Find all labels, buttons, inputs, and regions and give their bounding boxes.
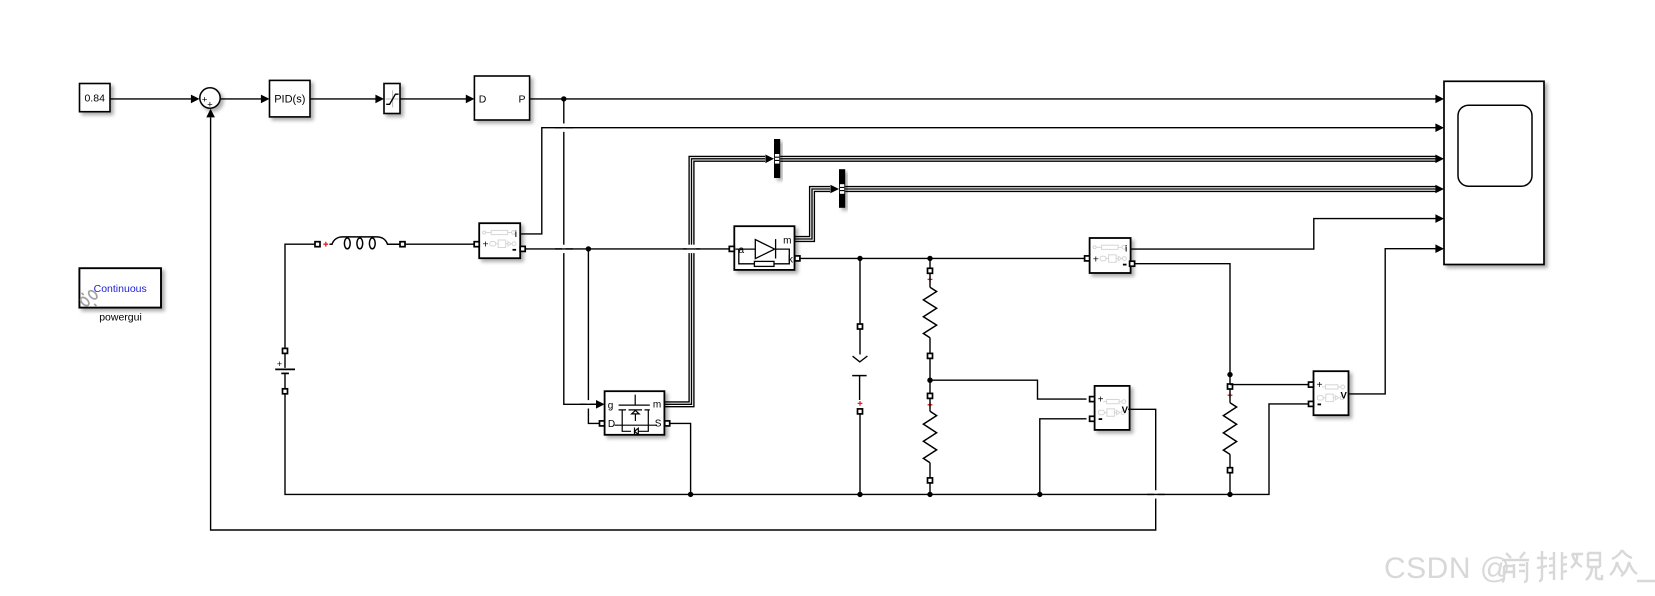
junction on P wire bbox=[561, 96, 566, 101]
bus diode m to demux 2 bbox=[795, 185, 840, 242]
svg-text:0.84: 0.84 bbox=[84, 93, 105, 105]
svg-text:P: P bbox=[518, 93, 525, 105]
wire V2 output to scope input 6 bbox=[1349, 244, 1445, 394]
scope block bbox=[1444, 81, 1544, 264]
svg-text:D: D bbox=[479, 94, 487, 106]
constant block 0.84 bbox=[80, 84, 111, 112]
wire feedback V1 to summing junction bbox=[206, 109, 1155, 530]
svg-text:V: V bbox=[1122, 405, 1129, 416]
svg-text:g: g bbox=[608, 401, 614, 412]
wire V1 minus to ground rail bbox=[1040, 419, 1087, 495]
wire inductor to current measurement 1 bbox=[405, 243, 475, 245]
svg-text:S: S bbox=[655, 418, 662, 429]
bus demux 1 to scope input 3 bbox=[780, 155, 1444, 164]
svg-text:+: + bbox=[482, 239, 488, 251]
load resistor R3 bbox=[1223, 372, 1236, 495]
wire CM1 i output to scope input 2 bbox=[520, 123, 1444, 233]
svg-text:i: i bbox=[1125, 244, 1128, 255]
bus MOSFET m to demux 1 bbox=[664, 155, 774, 407]
svg-text:V: V bbox=[1341, 390, 1348, 401]
svg-text:powergui: powergui bbox=[99, 312, 142, 324]
wire diode cathode to current measurement 2 bbox=[800, 256, 1085, 261]
bus demux 2 to scope input 4 bbox=[845, 185, 1444, 194]
wire CM2 i to scope input 5 bbox=[1130, 214, 1444, 249]
wire CM2 minus to load resistor bbox=[1135, 264, 1230, 373]
svg-text:i: i bbox=[514, 229, 517, 240]
wire PID to saturation bbox=[310, 95, 384, 104]
demux 2 bbox=[839, 169, 845, 208]
voltage measurement V1 bbox=[1095, 386, 1130, 430]
demux 1 bbox=[774, 139, 780, 178]
MOSFET block bbox=[605, 391, 665, 435]
svg-text:+: + bbox=[1098, 395, 1104, 406]
powergui label bbox=[99, 312, 142, 324]
saturation block bbox=[384, 84, 400, 114]
voltage measurement V2 bbox=[1314, 371, 1349, 415]
wire sum to PID bbox=[221, 95, 270, 104]
wire constant to sum bbox=[110, 95, 200, 104]
svg-text:+: + bbox=[207, 100, 213, 111]
powergui block Continuous bbox=[79, 268, 161, 307]
svg-text:D: D bbox=[608, 419, 615, 430]
resistor R2 (lower divider) bbox=[923, 378, 936, 495]
capacitor C bbox=[852, 258, 867, 494]
svg-text:+: + bbox=[1317, 380, 1323, 391]
wire saturation to PWM generator bbox=[400, 95, 474, 104]
diode block bbox=[734, 226, 794, 270]
svg-text:+: + bbox=[1093, 253, 1099, 265]
inductor L bbox=[315, 237, 405, 249]
svg-text:CSDN @: CSDN @ bbox=[1384, 552, 1511, 585]
summing junction bbox=[200, 88, 220, 111]
wire battery plus to inductor bbox=[285, 244, 315, 349]
svg-text:Continuous: Continuous bbox=[94, 283, 147, 295]
svg-text:m: m bbox=[783, 235, 791, 246]
svg-text:PID(s): PID(s) bbox=[274, 94, 305, 106]
PID controller block PID(s) bbox=[270, 80, 311, 117]
current measurement block 1 bbox=[479, 223, 520, 258]
watermark CSDN bbox=[1384, 552, 1511, 585]
svg-text:+: + bbox=[277, 359, 282, 369]
DC voltage source battery bbox=[275, 348, 295, 393]
PWM generator block bbox=[474, 76, 529, 120]
wire load top to V2 plus bbox=[1230, 384, 1309, 386]
wire crossing gaps bbox=[555, 124, 1165, 499]
wire node: CM1 minus to diode anode bbox=[525, 246, 729, 251]
wire ground rail bbox=[285, 394, 1309, 497]
wire node to MOSFET drain bbox=[588, 249, 599, 424]
wire P output to scope input 1 bbox=[530, 95, 1444, 104]
current measurement block 2 bbox=[1090, 238, 1131, 273]
wire gate drive to MOSFET g bbox=[564, 99, 605, 409]
resistor R1 (upper divider) bbox=[923, 258, 936, 380]
wire MOSFET source to ground rail bbox=[670, 423, 691, 494]
wire divider tap to V1 plus bbox=[930, 380, 1087, 399]
svg-text:m: m bbox=[653, 400, 661, 411]
